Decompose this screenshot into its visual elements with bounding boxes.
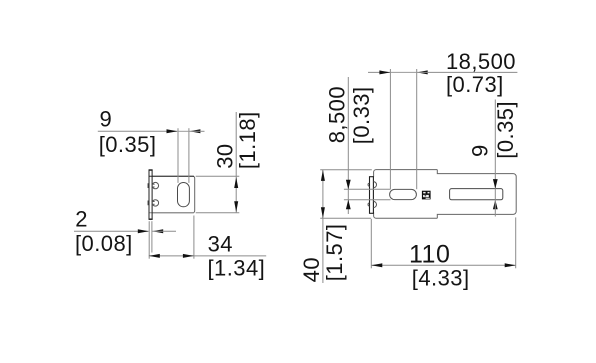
outline step and narrow right section [437,170,516,219]
dimension 2 leader [74,230,149,232]
dimension 34 line [149,255,266,257]
spring clip upper (side view) [148,182,159,188]
arrow right-pointing at 18500 left [379,70,390,74]
svg-text:9: 9 [100,106,113,131]
arrow right-pointing at 110 right [505,263,516,267]
dimension 30 line [235,112,237,213]
ext line flange right edge (for 34) [193,216,195,259]
svg-text:8,500: 8,500 [324,86,349,143]
arrow left-pointing at 18500 right [417,70,428,74]
ext line 40 bottom [320,217,371,219]
arrow up-pointing below slot [346,200,351,210]
svg-text:[1.57]: [1.57] [322,224,347,282]
stamp mark (black square) [422,191,431,200]
svg-text:30: 30 [212,143,237,168]
arrow left-pointing at plate right face [152,229,163,233]
svg-text:[1.18]: [1.18] [235,111,260,169]
arrow right-pointing at slot left edge [167,129,178,133]
dim 8500 line [347,77,349,214]
plate edge-on (dark) [370,177,374,214]
svg-text:[1.34]: [1.34] [208,256,266,281]
dim 18500 left tail [368,71,390,73]
clip upper (top view bump) [373,182,376,188]
dimension 30 ext line top [196,175,240,177]
tail right of 2-dim [152,230,176,232]
svg-text:110: 110 [409,241,450,269]
arrow down-pointing above slot [346,180,351,190]
flange bottom edge [149,212,194,214]
plate bottom cap [149,218,153,220]
svg-text:[0.08]: [0.08] [75,231,133,256]
dim 9 lower shaft [494,200,496,217]
dimension 9 (slot width) leader left [98,130,178,132]
arrow down at flange bottom [234,201,238,212]
arrow up at flange top [234,177,238,188]
plate ext line left (for 2 and 34) [148,221,150,259]
svg-text:[4.33]: [4.33] [412,265,470,290]
arrow right-pointing at plate left face [138,229,149,233]
svg-text:[0.35]: [0.35] [99,132,157,157]
clip lower (top view bump) [373,201,376,207]
flange outline (side view body) [152,176,195,213]
dim 18500 middle segment [390,71,416,73]
leader right tail [189,130,204,132]
arrow up at part top [321,170,325,181]
slot right (long slot) [450,189,503,200]
arrow left-pointing at slot right edge [189,129,200,133]
arrow down at part bottom [321,207,325,218]
clip upper left tip [368,183,370,186]
svg-text:[0.33]: [0.33] [349,86,374,144]
svg-text:18,500: 18,500 [446,49,516,74]
arrow left-pointing at 110 left [371,263,382,267]
svg-text:9: 9 [468,144,493,157]
ext line 110 right [515,217,517,268]
svg-text:[0.73]: [0.73] [446,72,504,97]
outline left wide section [374,170,438,219]
ext line 18500 right [416,69,418,189]
line through slot [494,189,496,200]
slot (side view vertical slot) [178,183,190,207]
stamp white details [423,192,425,194]
dim 110 line [371,264,515,266]
clip lower left tip [368,203,370,206]
arrow right-pointing at 34 right [183,254,194,258]
extension line slot left [177,128,179,183]
arrow left-pointing at 34 left [149,254,160,258]
flange top edge (dark) [149,175,194,177]
arrow up-pointing at slot bottom [493,200,498,210]
svg-text:40: 40 [299,257,324,282]
ext line 8500 bottom [344,199,391,201]
svg-text:34: 34 [208,231,233,256]
plate top cap [149,169,153,171]
dimension 30 ext line bottom [196,212,240,214]
svg-text:[0.35]: [0.35] [493,101,518,159]
ext line 110 left [370,219,372,268]
dim 18500 right tail [417,71,518,73]
mounting plate (side view, dark) [149,170,152,219]
ext line 18500 left [389,69,391,189]
arrow down-pointing at slot top [493,179,498,189]
dim 9 middle segment [178,130,189,132]
spring clip lower (side view) [148,200,159,206]
dim 40 line [322,170,324,283]
dim 9 right: upper line [494,100,496,189]
slot left (stadium) [390,189,417,199]
ext line 40 top [320,169,372,171]
ext line 8500 top [344,188,391,190]
extension line slot right [188,128,190,183]
svg-text:2: 2 [75,207,88,232]
plate ext line right (for 2) [151,221,153,252]
